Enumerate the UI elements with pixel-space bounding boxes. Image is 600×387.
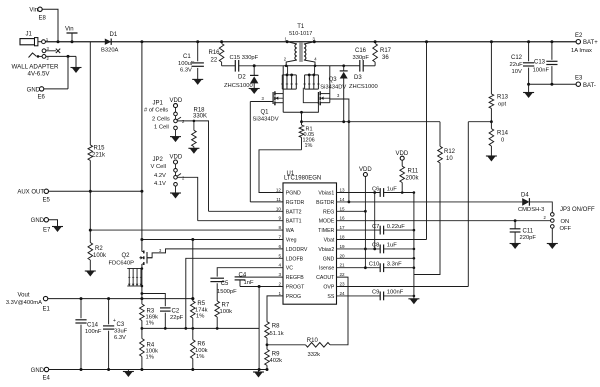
svg-text:1 Cell: 1 Cell (154, 125, 169, 131)
svg-text:16: 16 (340, 216, 346, 221)
svg-text:GND: GND (323, 256, 335, 262)
svg-text:BGTDR: BGTDR (316, 200, 334, 206)
svg-text:GND: GND (31, 368, 45, 374)
svg-text:BATT2: BATT2 (286, 209, 302, 215)
svg-text:R16: R16 (209, 50, 221, 56)
svg-text:C12: C12 (511, 55, 523, 61)
svg-text:VDD: VDD (396, 151, 409, 157)
svg-text:12: 12 (276, 188, 282, 193)
svg-text:21: 21 (340, 263, 346, 268)
svg-text:Vin: Vin (65, 27, 74, 33)
svg-text:3: 3 (278, 272, 281, 277)
svg-text:51.1k: 51.1k (270, 331, 284, 337)
svg-text:15: 15 (340, 206, 346, 211)
svg-text:B320A: B320A (101, 48, 119, 54)
svg-text:E1: E1 (43, 307, 51, 313)
svg-text:PROG: PROG (286, 294, 301, 300)
svg-text:VDD: VDD (170, 155, 183, 161)
svg-text:19: 19 (340, 244, 346, 249)
svg-text:6: 6 (278, 244, 281, 249)
svg-text:200k: 200k (406, 176, 420, 182)
svg-text:1A Imax: 1A Imax (571, 48, 592, 54)
svg-text:24: 24 (340, 291, 346, 296)
svg-text:4.1V: 4.1V (154, 181, 166, 187)
svg-text:Vreg: Vreg (286, 238, 297, 244)
svg-text:330pF: 330pF (353, 55, 370, 61)
svg-text:C3: C3 (117, 322, 125, 328)
svg-text:R10: R10 (307, 338, 319, 344)
svg-text:T1: T1 (297, 24, 305, 30)
svg-text:R5: R5 (197, 301, 205, 307)
svg-text:22uF: 22uF (510, 62, 524, 68)
svg-text:PGND: PGND (286, 191, 301, 197)
svg-text:4.2V: 4.2V (154, 173, 166, 179)
svg-text:R15: R15 (94, 146, 106, 152)
svg-text:R11: R11 (408, 169, 419, 175)
svg-text:Isense: Isense (319, 266, 334, 272)
svg-text:LDODRV: LDODRV (286, 247, 308, 253)
svg-text:0: 0 (501, 138, 504, 144)
svg-text:100uF: 100uF (178, 61, 195, 67)
svg-text:E3: E3 (575, 76, 583, 82)
svg-text:C7: C7 (372, 224, 379, 230)
svg-text:REG: REG (323, 209, 334, 215)
svg-text:22: 22 (211, 58, 218, 64)
svg-text:C2: C2 (172, 309, 180, 315)
svg-text:opt: opt (498, 102, 506, 108)
svg-text:100nF: 100nF (387, 290, 404, 296)
svg-text:ZHCS1000: ZHCS1000 (349, 84, 378, 90)
svg-text:TIMER: TIMER (318, 228, 334, 234)
svg-text:VDD: VDD (170, 98, 183, 104)
svg-text:# of Cells: # of Cells (144, 108, 168, 114)
svg-text:R2: R2 (95, 246, 103, 252)
svg-text:CAOUT: CAOUT (316, 275, 335, 281)
svg-text:C11: C11 (523, 228, 534, 234)
svg-text:1uF: 1uF (387, 243, 397, 249)
svg-text:WA: WA (286, 228, 295, 234)
svg-text:ZHCS1000: ZHCS1000 (224, 83, 253, 89)
svg-text:ON: ON (561, 219, 570, 225)
svg-text:10V: 10V (512, 69, 522, 75)
svg-text:BATT1: BATT1 (286, 219, 302, 225)
svg-text:100k: 100k (220, 309, 233, 315)
svg-text:4V-6.5V: 4V-6.5V (28, 71, 51, 78)
svg-text:100nF: 100nF (533, 68, 550, 74)
svg-text:Vout: Vout (17, 293, 29, 299)
svg-text:22: 22 (340, 272, 346, 277)
svg-text:Q2: Q2 (122, 253, 131, 259)
svg-text:402k: 402k (270, 358, 283, 364)
svg-text:MODE: MODE (319, 219, 335, 225)
svg-text:FDC640P: FDC640P (109, 261, 135, 267)
svg-text:2 Cells: 2 Cells (152, 117, 170, 123)
svg-text:GND: GND (31, 218, 45, 224)
svg-text:BAT-: BAT- (583, 83, 596, 89)
svg-text:C10: C10 (369, 262, 380, 268)
svg-text:Vbias1: Vbias1 (318, 191, 334, 197)
svg-text:Q3: Q3 (329, 77, 338, 83)
svg-text:E7: E7 (43, 228, 51, 234)
svg-text:1%: 1% (146, 321, 154, 327)
svg-text:3.3V@400mA: 3.3V@400mA (6, 300, 42, 306)
svg-text:20: 20 (340, 253, 346, 258)
svg-text:R14: R14 (497, 131, 509, 137)
svg-text:8: 8 (278, 225, 281, 230)
svg-text:VDD: VDD (359, 167, 372, 173)
svg-text:Vbat: Vbat (324, 238, 335, 244)
svg-text:18: 18 (340, 235, 346, 240)
svg-text:1uF: 1uF (387, 186, 397, 192)
svg-text:36: 36 (382, 55, 389, 61)
svg-text:C9: C9 (372, 290, 379, 296)
svg-text:BAT+: BAT+ (583, 40, 598, 46)
svg-text:221k: 221k (92, 153, 106, 159)
svg-text:J1: J1 (26, 32, 33, 38)
svg-text:JP3 ON/OFF: JP3 ON/OFF (560, 207, 595, 213)
svg-text:510-1017: 510-1017 (289, 31, 312, 37)
svg-text:OFF: OFF (560, 226, 572, 232)
svg-text:D2: D2 (238, 75, 246, 81)
svg-text:WALL ADAPTER: WALL ADAPTER (12, 64, 60, 71)
svg-text:LTC1980EGN: LTC1980EGN (284, 176, 321, 182)
svg-text:E6: E6 (38, 95, 46, 101)
svg-text:C15 330pF: C15 330pF (230, 55, 259, 61)
svg-text:C1: C1 (183, 54, 191, 60)
svg-text:1500pF: 1500pF (217, 289, 237, 295)
svg-text:4: 4 (278, 263, 281, 268)
svg-text:JP2: JP2 (153, 157, 164, 163)
svg-text:2: 2 (278, 282, 281, 287)
svg-text:JP1: JP1 (153, 101, 164, 107)
svg-text:9: 9 (278, 216, 281, 221)
svg-text:330K: 330K (193, 114, 207, 120)
svg-text:11: 11 (276, 197, 281, 202)
svg-text:10: 10 (446, 156, 453, 162)
svg-text:Vbias2: Vbias2 (318, 247, 334, 253)
svg-text:6.3V: 6.3V (180, 68, 192, 74)
svg-text:1%: 1% (305, 143, 313, 149)
svg-text:SS: SS (327, 294, 334, 300)
svg-text:Vin: Vin (29, 8, 38, 14)
svg-text:0.22uF: 0.22uF (387, 224, 406, 230)
svg-text:E2: E2 (575, 33, 583, 39)
svg-text:C14: C14 (87, 323, 99, 329)
svg-text:V Cell: V Cell (151, 164, 166, 170)
svg-text:10: 10 (276, 206, 282, 211)
svg-text:R7: R7 (222, 303, 230, 309)
svg-text:1: 1 (278, 291, 281, 296)
svg-text:22pF: 22pF (170, 315, 184, 321)
svg-text:1%: 1% (196, 354, 204, 360)
svg-text:100nF: 100nF (85, 329, 102, 335)
svg-text:7: 7 (278, 235, 281, 240)
svg-text:R13: R13 (497, 95, 509, 101)
svg-text:C13: C13 (534, 60, 546, 66)
svg-text:Si3434DV: Si3434DV (253, 117, 279, 123)
svg-text:E4: E4 (43, 376, 51, 382)
svg-text:REGFB: REGFB (286, 275, 304, 281)
svg-text:1nF: 1nF (244, 280, 254, 286)
svg-text:C8: C8 (372, 243, 379, 249)
svg-text:13: 13 (340, 188, 346, 193)
svg-text:R6: R6 (197, 342, 205, 348)
svg-text:VC: VC (286, 266, 293, 272)
svg-text:14: 14 (340, 197, 346, 202)
svg-text:CMDSH-3: CMDSH-3 (518, 207, 544, 213)
svg-text:23: 23 (340, 282, 346, 287)
svg-text:Si3434DV: Si3434DV (320, 85, 346, 91)
svg-text:GND: GND (27, 87, 41, 93)
svg-text:220pF: 220pF (520, 235, 537, 241)
svg-text:5: 5 (278, 253, 281, 258)
svg-text:33uF: 33uF (114, 329, 128, 335)
svg-text:C16: C16 (355, 48, 367, 54)
svg-text:1%: 1% (196, 314, 204, 320)
svg-text:R12: R12 (444, 149, 456, 155)
svg-text:LDOFB: LDOFB (286, 256, 304, 262)
svg-text:RGTDR: RGTDR (286, 200, 305, 206)
svg-text:C5: C5 (221, 281, 229, 287)
svg-text:E5: E5 (43, 197, 51, 203)
svg-text:E8: E8 (39, 16, 47, 22)
svg-text:3.3nF: 3.3nF (387, 262, 402, 268)
svg-text:R17: R17 (380, 48, 392, 54)
svg-text:332k: 332k (308, 352, 321, 358)
svg-text:C4: C4 (239, 272, 247, 278)
svg-text:100k: 100k (93, 253, 107, 259)
svg-text:C6: C6 (372, 186, 379, 192)
svg-text:R18: R18 (194, 107, 206, 113)
svg-text:Q1: Q1 (261, 110, 270, 116)
svg-text:AUX OUT: AUX OUT (17, 190, 44, 196)
svg-text:R8: R8 (272, 324, 280, 330)
svg-text:D1: D1 (110, 32, 118, 38)
svg-text:17: 17 (340, 225, 346, 230)
svg-text:D3: D3 (354, 75, 362, 81)
svg-text:R9: R9 (272, 352, 280, 358)
svg-text:D4: D4 (521, 193, 529, 199)
svg-text:OVP: OVP (323, 285, 334, 291)
svg-text:PROGT: PROGT (286, 285, 305, 291)
svg-text:1%: 1% (146, 355, 154, 361)
svg-text:6.3V: 6.3V (114, 335, 126, 341)
